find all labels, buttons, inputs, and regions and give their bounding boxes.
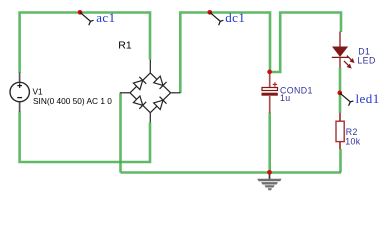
wire bridge right up and dc1 horizontal [180,13,270,94]
svg-text:R2: R2 [346,127,358,137]
junction dot ground [267,170,272,175]
node ac1 [78,10,116,25]
diode D top-left [133,80,142,89]
voltage source V1 [10,73,29,113]
wire V1 bottom to bridge bottom [20,112,150,163]
svg-text:dc1: dc1 [225,10,245,25]
svg-text:led1: led1 [356,91,380,106]
diode D top-right [154,76,163,85]
bridge rectifier R1 [120,60,181,123]
wire R2 bottom to ground rail [339,149,342,173]
junction dot dc jog [267,70,272,75]
wire capacitor bottom to ground rail [268,113,271,173]
wire ground rail [121,171,342,174]
capacitor COND1 [262,72,278,113]
wire LED bottom to R2 top [339,67,342,113]
svg-text:ac1: ac1 [96,10,115,25]
resistor R2 [336,113,344,149]
diamond sides [130,73,150,93]
emission arrows [344,56,354,68]
diode D bottom-left [133,96,142,105]
pin stubs [149,60,151,73]
wire bridge left to ground rail [119,93,122,172]
svg-text:R1: R1 [118,39,132,51]
ground [257,173,281,191]
wire top-left ac1 horizontal [20,13,150,74]
node led1 [337,91,379,106]
svg-text:10k: 10k [345,137,361,147]
svg-text:LED: LED [357,56,375,66]
LED D1 [332,32,354,68]
svg-text:V1: V1 [33,86,44,96]
wire junction jog to LED rail [270,13,341,73]
svg-text:1u: 1u [280,93,291,103]
node dc1 [207,10,245,25]
svg-text:SIN(0 400 50) AC 1 0: SIN(0 400 50) AC 1 0 [33,96,112,106]
diode D bottom-right [154,100,163,109]
